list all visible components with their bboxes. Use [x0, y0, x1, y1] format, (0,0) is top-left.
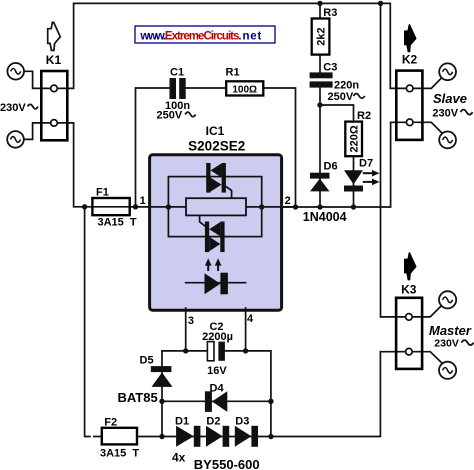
svg-text:K2: K2 — [402, 53, 418, 67]
svg-text:220n: 220n — [334, 79, 359, 91]
svg-text:3A15 T: 3A15 T — [98, 217, 137, 229]
wire pin2 net to K2.2 — [282, 122, 442, 207]
tilde master — [462, 340, 474, 345]
svg-text:100Ω: 100Ω — [232, 84, 257, 95]
svg-text:Master: Master — [429, 323, 472, 338]
svg-text:BAT85: BAT85 — [118, 390, 158, 405]
resistor R3 — [312, 19, 330, 55]
node pin1 junction F1 left — [82, 204, 87, 209]
wire R3 C3 D6 branch — [319, 3, 321, 207]
K1 terminal 1 — [51, 85, 58, 92]
svg-text:R1: R1 — [226, 67, 240, 79]
svg-text:1N4004: 1N4004 — [303, 210, 347, 224]
K2 terminal 2 — [406, 119, 413, 126]
node D3 right — [268, 434, 273, 439]
svg-text:4: 4 — [247, 313, 254, 325]
svg-text:2: 2 — [285, 195, 291, 207]
svg-text:1: 1 — [140, 195, 146, 207]
arrow K3 — [404, 252, 417, 280]
AC source K1 bottom — [7, 131, 24, 148]
svg-text:D4: D4 — [210, 383, 225, 395]
tilde slave — [461, 110, 473, 115]
capacitor C1 — [170, 78, 186, 99]
node top right — [378, 1, 383, 6]
wire through F1 — [92, 206, 129, 208]
wire C1 branch — [136, 88, 296, 207]
IC triac lower — [200, 215, 225, 252]
tilde 250V C1 — [185, 112, 195, 117]
svg-text:BY550-600: BY550-600 — [194, 457, 260, 470]
wire D5 column — [161, 351, 163, 437]
IC photo arrows — [205, 258, 222, 271]
node pin2 D7 — [351, 204, 356, 209]
fuse F1 — [92, 198, 129, 215]
svg-text:S202SE2: S202SE2 — [188, 138, 245, 153]
IC triac upper — [206, 163, 231, 198]
node D5 D4 — [159, 399, 164, 404]
node D4 right — [268, 399, 273, 404]
diode D5 — [151, 366, 173, 387]
node IC left — [166, 204, 171, 209]
diode D3 — [235, 426, 258, 447]
connector K2 — [396, 71, 422, 140]
svg-text:R3: R3 — [323, 7, 337, 19]
svg-text:R2: R2 — [357, 110, 371, 122]
svg-text:3: 3 — [188, 315, 194, 327]
svg-text:3A15 T: 3A15 T — [100, 448, 139, 460]
svg-text:16V: 16V — [207, 365, 227, 377]
IC LED — [186, 273, 246, 295]
svg-text:www.ExtremeCircuits.net: www.ExtremeCircuits.net — [139, 31, 261, 43]
diode D6 — [310, 173, 330, 192]
AC source K2 top — [439, 63, 456, 80]
wire dash before F2 — [94, 436, 102, 438]
wire IC pin4 — [245, 308, 247, 351]
AC source K3 top — [439, 291, 456, 308]
svg-text:D7: D7 — [359, 158, 373, 170]
title box — [135, 26, 275, 43]
svg-text:250V: 250V — [328, 91, 354, 103]
AC source K3 bottom — [439, 362, 456, 379]
svg-text:F2: F2 — [104, 417, 117, 429]
connector K1 — [41, 71, 67, 140]
diode D4 — [205, 391, 227, 412]
wire C2 row — [162, 351, 271, 437]
K2 terminal 1 — [406, 85, 413, 92]
wire K3.2 down and left along bottom — [137, 352, 442, 437]
wire F1 to IC pin1 and through IC to pin2 — [130, 206, 296, 208]
svg-text:2200µ: 2200µ — [202, 331, 233, 343]
svg-text:230V: 230V — [0, 102, 26, 114]
resistor R2 — [345, 122, 362, 157]
tilde 230V left — [28, 104, 38, 109]
svg-text:K1: K1 — [46, 53, 62, 67]
wire IC pin3 — [185, 308, 187, 351]
wire K1 source 2 — [24, 123, 54, 139]
K1 terminal 2 — [51, 120, 58, 127]
resistor R1 — [226, 81, 263, 95]
node top R3 — [317, 1, 322, 6]
wire D4 row — [162, 400, 271, 402]
svg-text:250V: 250V — [157, 110, 183, 122]
diode D7 LED — [344, 170, 380, 192]
svg-text:D6: D6 — [324, 161, 338, 173]
svg-text:4x: 4x — [172, 450, 186, 464]
AC source K1 top — [7, 63, 24, 80]
node pin2 R1 — [293, 204, 298, 209]
svg-text:Slave: Slave — [433, 91, 467, 106]
node C3 R2 — [317, 102, 322, 107]
svg-text:C1: C1 — [170, 66, 184, 78]
svg-text:D5: D5 — [140, 355, 154, 367]
capacitor C2 — [207, 342, 225, 361]
diode D2 — [206, 426, 229, 447]
wire R2 D7 branch — [320, 105, 354, 207]
IC1 body — [150, 155, 282, 310]
capacitor C3 — [310, 72, 333, 87]
wire K1.2 down to F1 — [54, 123, 92, 207]
svg-text:D1: D1 — [175, 416, 189, 428]
svg-text:C3: C3 — [323, 62, 337, 74]
K3 terminal 2 — [406, 348, 413, 355]
wire K1 source 1 — [24, 71, 54, 88]
svg-text:2k2: 2k2 — [315, 27, 327, 45]
node pin2 D6 — [317, 204, 322, 209]
fuse F2 — [102, 428, 137, 445]
node pin1 junction C1 — [133, 204, 138, 209]
node IC right — [259, 204, 264, 209]
arrow K1 — [48, 22, 61, 50]
node D5 bottom — [159, 434, 164, 439]
connector K3 — [396, 298, 422, 369]
wire right main drop to K3.1 — [381, 3, 441, 317]
K3 terminal 1 — [406, 314, 413, 321]
tilde 250V C3 — [354, 94, 365, 99]
svg-text:F1: F1 — [96, 186, 109, 198]
svg-text:230V: 230V — [432, 107, 458, 119]
arrow K2 — [404, 24, 417, 52]
svg-text:K3: K3 — [401, 282, 417, 296]
svg-text:D3: D3 — [235, 416, 249, 428]
node pin3 — [183, 348, 188, 353]
IC inner loop — [168, 177, 261, 237]
svg-text:220Ω: 220Ω — [349, 125, 361, 152]
svg-text:IC1: IC1 — [206, 124, 225, 138]
node pin4 — [243, 348, 248, 353]
wire top loop K1.1 to K2.1 — [54, 3, 442, 88]
IC control rectangle — [186, 198, 246, 215]
AC source K2 bottom — [439, 132, 456, 149]
svg-text:D2: D2 — [206, 416, 220, 428]
wire left drop to F2 — [85, 207, 90, 437]
svg-text:230V: 230V — [434, 338, 459, 350]
diode D1 — [176, 426, 200, 447]
